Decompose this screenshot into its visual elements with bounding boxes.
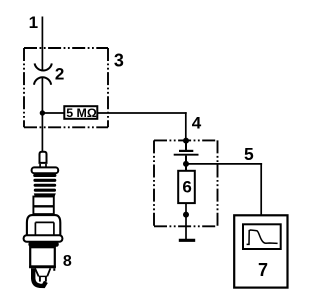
junction node D — [183, 212, 189, 218]
svg-text:6: 6 — [182, 177, 191, 196]
svg-text:1: 1 — [29, 13, 38, 32]
insulator top ridge — [32, 167, 59, 173]
capacitor C bottom plate — [174, 154, 199, 156]
svg-text:2: 2 — [55, 65, 64, 84]
shield box 4 right edge — [217, 140, 219, 226]
svg-text:8: 8 — [63, 253, 72, 270]
shell corner stub right — [53, 268, 55, 271]
wire W6 (node B to capacitor) — [185, 141, 187, 150]
plug terminal neck — [39, 164, 41, 168]
seat band (dark) — [28, 242, 58, 247]
wire W5 (corner down to shield box 4) — [185, 112, 187, 141]
wire W1 (HT lead from top) — [41, 17, 43, 71]
centre electrode — [40, 276, 46, 281]
waveform trace — [247, 230, 278, 244]
shield box 3 right edge — [107, 48, 109, 127]
junction node B (feed-through on box 4) — [183, 138, 189, 144]
component box 6 — [178, 171, 195, 203]
junction node A — [40, 110, 45, 115]
capacitor C top plate — [179, 150, 193, 152]
earth electrode (J hook) — [33, 268, 46, 286]
gasket ring — [24, 235, 63, 242]
svg-text:5 MΩ: 5 MΩ — [66, 106, 97, 120]
hex chamfer line — [35, 221, 54, 223]
hex facet right — [53, 222, 55, 235]
last rib (tapered) — [34, 193, 56, 196]
shield box 3 left edge — [23, 48, 25, 127]
hex facet left — [34, 222, 36, 235]
meter box 7 (oscilloscope) — [234, 215, 287, 287]
wire W3 (node A to resistor) — [42, 112, 64, 114]
shield box 4 bottom edge — [154, 225, 218, 227]
shield box 4 left edge — [153, 140, 155, 226]
threaded shell — [30, 247, 55, 266]
svg-text:4: 4 — [192, 114, 202, 133]
svg-text:7: 7 — [258, 260, 268, 280]
wire W10 (box 6 to ground) — [185, 203, 187, 240]
plug terminal nub — [40, 152, 47, 163]
shield box 4 top edge — [154, 139, 218, 141]
shell bottom edge — [29, 266, 56, 268]
wire W4 (resistor to corner) — [97, 112, 186, 114]
wire W7 (capacitor to box 6) — [185, 156, 187, 172]
insulator barrel — [33, 197, 53, 215]
resistor R 5 MOhm box — [64, 106, 97, 119]
svg-text:3: 3 — [114, 50, 124, 70]
svg-text:5: 5 — [244, 144, 254, 164]
scope screen — [243, 224, 281, 249]
wire W8 (node C to meter, horizontal) — [186, 163, 262, 165]
spark plug 8 — [24, 152, 63, 286]
shield box 3 bottom edge — [24, 126, 108, 128]
shield box 3 (chain line) top edge — [24, 47, 108, 49]
barrel divider line — [33, 205, 53, 207]
wire W2 (gap to plug terminal) — [41, 77, 43, 151]
wire W9 (down into meter 7) — [260, 163, 262, 215]
hex nut body — [27, 215, 60, 235]
junction node C — [183, 161, 189, 167]
spark gap 2 lower electrode arc — [34, 77, 51, 85]
insulator ribs — [33, 174, 56, 177]
spark gap 2 upper electrode arc — [35, 63, 52, 70]
ground symbol (below box 4) — [179, 239, 195, 242]
insulator nose cone — [35, 268, 50, 276]
